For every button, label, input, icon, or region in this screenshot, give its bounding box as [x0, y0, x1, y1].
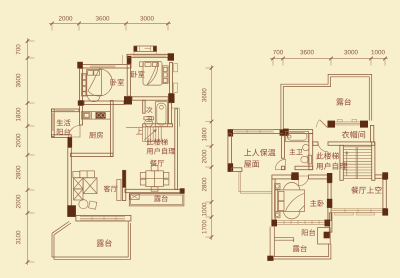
wall wardrobe right: [370, 125, 373, 141]
terrace bottom right plan: [270, 227, 331, 259]
wall bedroom2 right: [170, 63, 173, 94]
room label 卧室 (right bedroom): [131, 71, 144, 78]
wall bedroom2 left: [127, 64, 130, 96]
wall bathroom right: [169, 103, 172, 124]
room label 卧室 (left bedroom): [111, 79, 124, 86]
column dining-void top-right: [382, 172, 388, 179]
column master-bed right mid: [327, 199, 332, 208]
stair landing line: [126, 127, 143, 129]
room label 衣帽间: [342, 131, 365, 138]
room label 厨房: [89, 132, 103, 139]
door arc master-bed: [299, 176, 309, 186]
column terrace corner L: [267, 256, 273, 261]
stairs right plan: [340, 142, 375, 180]
wall bedroom2 top: [127, 54, 173, 57]
terrace strip outer: [129, 194, 184, 206]
wall bathroom top: [132, 97, 168, 100]
column living top-left: [68, 137, 73, 147]
roof edge thin lines: [239, 171, 272, 191]
room label 阳台 (right plan): [302, 229, 315, 236]
stairs left plan: [143, 127, 162, 142]
entry door wardrobe: [320, 120, 328, 128]
room label 阳台 (balcony line2): [57, 128, 70, 135]
column bedroom2 bottom-right: [168, 93, 174, 103]
column master-bed right top: [327, 173, 332, 183]
label 此楼梯: [147, 139, 168, 146]
wall master-bath left: [281, 136, 284, 159]
niche lines right of bathroom: [172, 107, 180, 109]
wardrobe top wall with window: [328, 119, 369, 127]
wall balcony top: [52, 109, 80, 112]
wall kitchen right: [110, 101, 113, 157]
room label 上人保温: [244, 149, 275, 156]
wall stair-to-column: [375, 175, 382, 178]
room label 露台 (bottom right): [293, 245, 307, 252]
dimension chain top-left (2000,3600,3000): [49, 16, 171, 30]
wall master-bed top: [272, 175, 292, 179]
washbasin master-bath: [303, 144, 309, 150]
column dining bottom-right: [180, 188, 185, 193]
column master-bed top door: [291, 172, 298, 180]
wall kitchen bottom: [71, 153, 114, 156]
room label 露台 (top terrace): [336, 98, 351, 105]
room label 主卧: [310, 200, 324, 207]
terrace strip inner: [131, 195, 183, 205]
wall roof-area top + window: [228, 130, 284, 134]
toilet bathroom: [144, 117, 154, 127]
wall bathroom bottom: [143, 124, 173, 127]
wall master-bath top: [284, 130, 312, 134]
wall master-bath bottom: [281, 166, 284, 170]
column bedroom2 top-right: [168, 53, 174, 60]
room label 餐厅: [150, 160, 164, 167]
room label terrace strip 露台: [154, 195, 168, 202]
dimension chain left (700,3600,1800,2000,2800,2000,3100): [16, 38, 35, 265]
room label 客厅: [104, 185, 118, 192]
bathtub master-bath: [286, 131, 309, 141]
column roof-area bottom-left: [228, 163, 233, 171]
planter right of balcony: [318, 228, 331, 244]
column dining/living top: [123, 170, 126, 187]
wall bedroom1 left: [80, 69, 83, 101]
wall bedroom1 bottom: [84, 101, 124, 105]
dining table with chairs: [140, 166, 169, 192]
toilet master-bath: [301, 155, 312, 164]
column master-bed bottom-left: [271, 220, 277, 227]
room label terrace bottom-left 露台: [97, 239, 112, 246]
column master-bath top-left: [283, 129, 289, 136]
bed bedroom2: [140, 62, 169, 86]
window sill marks right of bedroom2: [174, 64, 178, 72]
label 此楼梯 (right): [316, 152, 339, 159]
terrace parapet diagonal: [52, 222, 69, 234]
kitchen counter: [82, 112, 111, 120]
terrace parapet left/bottom/right: [52, 222, 128, 258]
label 用户自理 (right): [316, 162, 347, 169]
wall bedroom1 top: [78, 65, 131, 69]
room label 屋面: [244, 160, 259, 167]
column bedroom1 bottom-left: [78, 100, 84, 105]
label 用户自理: [147, 148, 176, 155]
wall roof-area left: [228, 134, 232, 172]
wall master-bed left: [272, 179, 275, 220]
bay window bedroom2: [134, 46, 157, 54]
wall dining right: [175, 109, 178, 190]
roof line bedroom divider: [122, 55, 124, 65]
wall roof-area bottom-left: [232, 168, 242, 172]
column living bottom-left: [67, 205, 76, 217]
wardrobe bedroom1: [81, 74, 86, 97]
door arc master-bath: [275, 159, 285, 169]
wall balcony bottom: [52, 135, 72, 138]
window master-bed bottom: [277, 219, 325, 221]
wall balcony right connector: [329, 213, 332, 232]
sofa group living room: [73, 171, 97, 209]
bed master bedroom: [275, 183, 305, 219]
door arc balcony: [69, 126, 81, 138]
terrace outline right plan (stepped): [281, 74, 372, 134]
wall balcony left + window: [52, 109, 55, 137]
column master-bed bottom-right: [325, 220, 331, 227]
column dining-void bottom-right: [382, 208, 388, 215]
column roof-area top-left: [228, 129, 233, 136]
balcony parapet: [275, 237, 294, 239]
wall master-bath right: [309, 134, 313, 170]
room label 主卫: [289, 149, 302, 155]
planter box with X: [130, 194, 139, 200]
wall master-bed right: [328, 183, 331, 221]
column bedroom1/bath junction: [124, 96, 132, 104]
room label 生活 (balcony line1): [57, 119, 71, 126]
bed bedroom1 with swirl quilt: [87, 69, 113, 102]
column bedroom1 top-left: [77, 62, 83, 69]
column terrace bottom-left: [280, 129, 285, 135]
label 上 (up): [136, 128, 142, 134]
window band dining-void bottom: [332, 208, 382, 210]
wall master-bed top right part: [309, 175, 329, 179]
dimension chain top-right (700,3600,3000,1000): [270, 50, 388, 66]
dimension chain middle (3600,1800,2000,2800,1000,1700): [202, 65, 213, 240]
wall living bottom window: [76, 215, 131, 221]
bathtub bathroom: [155, 102, 167, 127]
column bedroom2 top-left: [127, 56, 132, 64]
wall wardrobe bottom: [313, 142, 318, 145]
tv cabinet living room: [117, 180, 121, 201]
door arc wardrobe-corridor: [318, 142, 328, 152]
wall dining bottom: [125, 189, 180, 192]
wall left of kitchen (to balcony door): [80, 106, 83, 125]
room label 餐厅上空: [351, 186, 381, 193]
sill marks under dining-void window: [335, 213, 354, 215]
wall dining/living divider: [122, 170, 125, 200]
wall living left: [68, 148, 72, 216]
wall bathroom left: [143, 100, 145, 113]
wall dining-void right: [383, 180, 386, 209]
room label 次卫 (stacked): [146, 107, 152, 113]
